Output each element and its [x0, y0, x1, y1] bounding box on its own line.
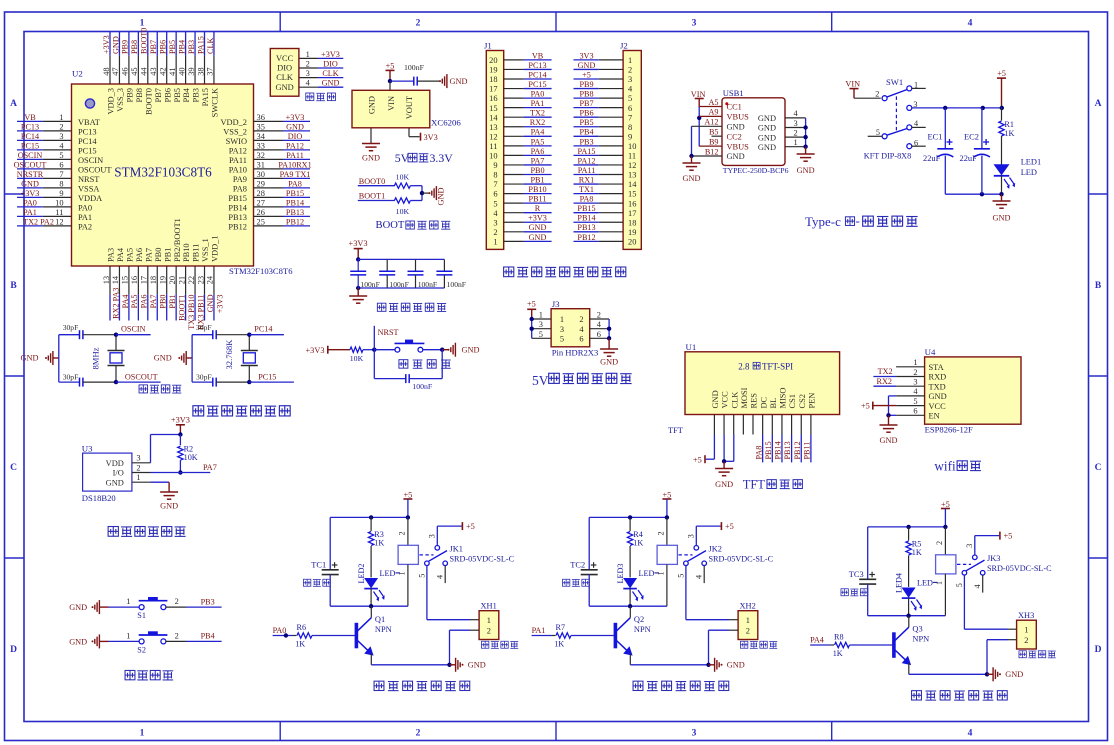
svg-text:PB4: PB4 [579, 128, 593, 137]
net label PA0 (relay input) [273, 626, 293, 635]
relay contact 5 (JK3) [955, 571, 967, 588]
U2 pin 25 (PB12) right, net PB12 [228, 217, 310, 231]
svg-text:GND: GND [322, 79, 340, 88]
resistor R6 1K (base) [293, 623, 355, 648]
svg-text:PB14: PB14 [774, 441, 783, 459]
svg-text:17: 17 [140, 276, 149, 284]
svg-text:PC15: PC15 [258, 373, 276, 382]
svg-text:1K: 1K [833, 649, 843, 658]
wire bottom rail [945, 193, 1001, 195]
svg-text:NRST: NRST [78, 175, 99, 184]
svg-text:2: 2 [397, 531, 406, 535]
svg-text:100nF: 100nF [447, 280, 466, 289]
svg-text:9: 9 [628, 132, 632, 141]
svg-text:LED1: LED1 [1021, 158, 1041, 167]
svg-text:VDD_1: VDD_1 [211, 235, 220, 262]
svg-text:PB4: PB4 [201, 632, 215, 641]
svg-text:+3V3: +3V3 [215, 295, 224, 314]
svg-text:CLK: CLK [206, 38, 215, 54]
svg-text:1: 1 [126, 597, 130, 606]
display U1 TFT body [685, 352, 840, 415]
relay contact 3 (JK3) with +5 [965, 532, 1012, 560]
ground port GND (crystal Y1) [21, 351, 59, 365]
svg-text:PB13: PB13 [577, 223, 595, 232]
svg-text:3V3: 3V3 [424, 133, 438, 142]
wire A12-B12 gnd vertical [691, 126, 693, 156]
svg-text:GND: GND [683, 174, 701, 183]
svg-text:39: 39 [187, 67, 196, 75]
U2 pin 42 (PB6) top, net PB6 [159, 32, 173, 103]
U2 pin 13 (PA3) bottom, net RX2 PA3 [102, 248, 121, 321]
download port pin 4 GND net GND [276, 79, 344, 92]
svg-text:STM32F103C8T6: STM32F103C8T6 [229, 266, 293, 276]
switch SW1 contact 3 [907, 100, 918, 110]
net label PB11 (U1 PEN) [803, 435, 812, 463]
svg-text:EN: EN [929, 412, 940, 421]
power port +5 (J3) [527, 300, 536, 339]
net label PB12 (U1 CS2) [793, 435, 802, 463]
svg-text:KFT DIP-8X8: KFT DIP-8X8 [864, 152, 911, 161]
svg-text:PA1: PA1 [531, 99, 545, 108]
wire SW1 pin3 to rail [912, 107, 1002, 109]
svg-text:100nF: 100nF [418, 280, 437, 289]
svg-text:20: 20 [628, 237, 636, 246]
wire BOOT joining vertical [421, 186, 423, 201]
svg-text:C: C [10, 463, 17, 473]
power port VIN (SW1) [845, 80, 860, 99]
svg-text:+5: +5 [861, 402, 870, 411]
junction bottom (JK2) [628, 604, 632, 608]
svg-text:PB7: PB7 [579, 99, 593, 108]
J2 pin 3 net +5 [574, 70, 633, 84]
U2 pin 44 (BOOT0) top, net BOOT0 [140, 28, 154, 115]
svg-text:BOOT0: BOOT0 [140, 28, 149, 54]
U1 pin CS1 [788, 394, 797, 434]
svg-text:PB8: PB8 [130, 40, 139, 54]
svg-text:PB15: PB15 [286, 189, 304, 198]
U2 pin 40 (PB4) top, net PB4 [177, 32, 191, 103]
svg-text:PA9 TX1: PA9 TX1 [280, 170, 311, 179]
USB1 pin 2 GND right [758, 128, 806, 142]
svg-text:+5: +5 [1004, 532, 1013, 541]
power port +3V3 (filter caps) [349, 239, 368, 259]
svg-text:LED: LED [639, 569, 655, 578]
svg-text:6: 6 [628, 104, 632, 113]
svg-text:PC14: PC14 [21, 132, 39, 141]
J1 pin 8 net PB0 [493, 166, 551, 180]
svg-text:BOOT: BOOT [376, 220, 405, 231]
svg-text:SRD-05VDC-SL-C: SRD-05VDC-SL-C [450, 554, 515, 563]
socket XH3 body [1017, 620, 1037, 649]
svg-text:GND: GND [929, 392, 947, 401]
svg-text:R7: R7 [556, 623, 566, 632]
J2 pin 8 net PB5 [574, 118, 633, 132]
relay contact 4 (JK3) [973, 571, 985, 593]
svg-text:1K: 1K [912, 548, 922, 557]
svg-text:12: 12 [489, 132, 497, 141]
junction bottom (JK1) [369, 604, 373, 608]
svg-text:5: 5 [493, 199, 497, 208]
relay contact 4 (JK1) [436, 561, 448, 583]
svg-text:1: 1 [913, 358, 917, 367]
svg-text:1: 1 [126, 632, 130, 641]
svg-text:I/O: I/O [113, 469, 124, 478]
wire filter bottom rail [358, 287, 444, 289]
svg-text:PB2/BOOT1: PB2/BOOT1 [173, 218, 182, 262]
U2 pin 21 (PB10) bottom, net TX3 PB10 [177, 243, 196, 329]
svg-text:TX2: TX2 [530, 109, 545, 118]
U2 pin 19 (PB1) bottom, net PB1 [159, 248, 178, 321]
svg-text:PB5: PB5 [173, 88, 182, 102]
svg-text:B: B [10, 281, 17, 291]
U2 pin 26 (PB13) right, net PB13 [228, 208, 310, 222]
svg-text:2: 2 [493, 228, 497, 237]
U3 pin 2 I/O, net PA7 [132, 463, 217, 472]
wire cap to GND port [417, 80, 440, 82]
junction node VIN [388, 79, 392, 83]
svg-text:3: 3 [913, 378, 917, 387]
svg-text:42: 42 [159, 67, 168, 75]
caption white socket (XH3) [1019, 651, 1056, 658]
caption BOOT setup circuit [376, 220, 451, 231]
svg-text:+5: +5 [662, 491, 671, 500]
svg-text:A9: A9 [708, 108, 718, 117]
svg-text:26: 26 [257, 208, 265, 217]
ground port GND (relay JK1) [450, 658, 486, 672]
svg-text:PC14: PC14 [254, 325, 272, 334]
led LED2 [357, 563, 400, 606]
caption reset circuit [399, 360, 451, 369]
connector download port (SWD) body [270, 49, 299, 97]
svg-text:22: 22 [187, 276, 196, 284]
svg-text:100nF: 100nF [389, 280, 408, 289]
svg-text:PB11: PB11 [529, 195, 547, 204]
svg-text:PB14: PB14 [577, 214, 595, 223]
U2 pin 10 (PA0) left, net PA0 [17, 198, 92, 212]
svg-text:GND: GND [529, 223, 547, 232]
svg-text:10K: 10K [184, 453, 198, 462]
svg-text:LED: LED [917, 578, 933, 587]
svg-text:5: 5 [539, 330, 543, 339]
ground port GND (relay JK2) [709, 658, 745, 672]
U2 pin 41 (PB5) top, net PB5 [168, 32, 182, 103]
capacitor EC2 22uF electrolytic [960, 108, 990, 194]
svg-text:PA6: PA6 [531, 147, 545, 156]
svg-text:43: 43 [149, 67, 158, 75]
svg-text:CS2: CS2 [798, 394, 807, 408]
svg-text:5V: 5V [532, 373, 549, 388]
U4 pin 2 RXD [896, 368, 946, 382]
wire collector (Q3) [908, 616, 910, 628]
svg-text:PB3: PB3 [579, 137, 593, 146]
U4 pin 4 GND [896, 387, 947, 401]
caption 5V external backup power [532, 373, 632, 388]
transistor Q1 NPN [356, 618, 373, 656]
dashed actuator link (JK1) [420, 554, 434, 556]
wire U1 GND pin to +5 [706, 435, 715, 460]
svg-text:PB9: PB9 [121, 40, 130, 54]
power port VIN (usb) [691, 90, 706, 107]
svg-text:PA3: PA3 [107, 248, 116, 262]
svg-text:ESP8266-12F: ESP8266-12F [925, 425, 973, 435]
svg-text:3V3: 3V3 [579, 51, 593, 60]
svg-text:PA12: PA12 [286, 141, 304, 150]
capacitor 100nF (reset) with loop wires [374, 350, 442, 392]
svg-text:+3V3: +3V3 [349, 239, 368, 248]
svg-text:PB3: PB3 [201, 597, 215, 606]
svg-text:TC1: TC1 [311, 560, 326, 569]
J3 pin 2 [579, 311, 609, 325]
svg-text:GND: GND [468, 661, 486, 670]
J2 pin 15 net TX1 [574, 185, 637, 199]
svg-text:2: 2 [935, 541, 944, 545]
resistor R8 1K (base) [831, 633, 893, 658]
junction crystal top [114, 333, 118, 337]
svg-text:BOOT0: BOOT0 [359, 177, 385, 186]
svg-text:15: 15 [628, 190, 636, 199]
svg-text:PA12: PA12 [578, 156, 596, 165]
caption Type-c power circuit [805, 213, 918, 229]
ground port GND (S2) [69, 634, 108, 648]
svg-text:VDD_3: VDD_3 [107, 88, 116, 115]
svg-text:J2: J2 [620, 41, 628, 51]
svg-text:PC14: PC14 [528, 70, 546, 79]
svg-text:LED3: LED3 [616, 563, 625, 583]
wire emitter rail (Q2) [630, 664, 708, 666]
svg-text:2: 2 [175, 632, 179, 641]
svg-text:PB7: PB7 [149, 40, 158, 54]
wire VIN vertical to VBUS pins [698, 107, 700, 147]
U2 pin 22 (PB11) bottom, net RX3 PB11 [187, 244, 206, 330]
sensor U3 DS18B20 body [83, 453, 132, 491]
svg-text:2: 2 [416, 729, 421, 739]
svg-text:15: 15 [489, 104, 497, 113]
svg-text:PA8: PA8 [754, 446, 763, 460]
net label PA4 (relay input) [810, 636, 830, 645]
svg-text:NPN: NPN [634, 625, 651, 634]
J2 pin 7 net PB6 [574, 109, 633, 123]
svg-text:11: 11 [55, 208, 63, 217]
svg-text:S2: S2 [137, 645, 146, 654]
J1 pin 18 net PC14 [489, 70, 551, 84]
J1 pin 13 net RX2 [489, 118, 551, 132]
svg-text:PA6: PA6 [135, 248, 144, 262]
capacitor TC2 tantalum [570, 517, 597, 606]
wire S2 pin2 [166, 640, 186, 642]
U3 pin 3 VDD [132, 435, 181, 463]
J1 pin 1 net GND [493, 233, 551, 247]
U2 pin 33 (PA12) right, net PA12 [229, 141, 310, 155]
svg-text:+3V3: +3V3 [286, 113, 305, 122]
svg-text:6: 6 [597, 330, 601, 339]
svg-text:1: 1 [794, 138, 798, 147]
svg-text:GND: GND [362, 154, 380, 163]
svg-text:30: 30 [257, 170, 265, 179]
USB1 pin A12 (GND) [692, 118, 745, 132]
J1 pin 16 net PA0 [489, 90, 551, 104]
switch SW1 pole B (pins 5-4) [868, 119, 926, 139]
svg-text:PA11: PA11 [229, 156, 247, 165]
svg-text:XH2: XH2 [740, 602, 756, 611]
wire emitter (Q2) [629, 654, 631, 665]
capacitor 100nF filter #3 [408, 259, 438, 289]
capacitor 100nF (regulator input) [404, 63, 425, 86]
wire LED1 to bottom rail [1001, 176, 1003, 194]
U2 pin 35 (VSS_2) right, net GND [223, 122, 310, 136]
U2 pin 18 (PB0) bottom, net PB0 [149, 248, 168, 321]
junction R2 top [178, 432, 182, 436]
junction right gnd pins [803, 125, 807, 129]
svg-text:+3V3: +3V3 [102, 35, 111, 54]
svg-text:VBUS: VBUS [727, 142, 750, 151]
ground port GND (input cap) [439, 74, 467, 88]
svg-text:1: 1 [306, 50, 310, 59]
wire emitter (Q3) [908, 663, 910, 674]
svg-text:TYPEC-250D-BCP6: TYPEC-250D-BCP6 [723, 166, 789, 175]
svg-text:GND: GND [21, 179, 39, 188]
svg-text:11: 11 [489, 142, 497, 151]
svg-text:A12: A12 [704, 118, 718, 127]
wifi module U4 body [925, 357, 1021, 424]
wire U1 CLK down-left [724, 435, 734, 462]
svg-text:DIO: DIO [323, 59, 338, 68]
power port +3V3 (U3) [171, 415, 190, 434]
svg-text:1: 1 [59, 113, 63, 122]
svg-text:TFT: TFT [743, 478, 766, 492]
junction I/O node [178, 470, 182, 474]
download port pin 1 VCC net +3V3 [276, 50, 343, 63]
svg-text:OSCOUT: OSCOUT [14, 160, 47, 169]
svg-text:TXD: TXD [929, 382, 946, 391]
net label PA8 (U1 DC) [754, 435, 763, 463]
svg-text:VDDA: VDDA [78, 194, 102, 203]
svg-text:3: 3 [59, 132, 63, 141]
svg-text:STA: STA [929, 363, 944, 372]
svg-text:1: 1 [935, 581, 944, 585]
svg-text:30pF: 30pF [63, 372, 79, 381]
svg-text:GND: GND [69, 603, 87, 612]
U1 pin BL [769, 398, 778, 435]
svg-text:2: 2 [136, 463, 140, 472]
junction crystal top [247, 333, 251, 337]
junction bottom EC2 [980, 192, 984, 196]
svg-text:3: 3 [493, 218, 497, 227]
wire contact5 to XH1 pin1 [427, 566, 479, 620]
svg-text:USB1: USB1 [723, 88, 744, 98]
svg-text:8: 8 [59, 180, 63, 189]
U2 pin 27 (PB14) right, net PB14 [228, 198, 310, 212]
svg-text:GND: GND [797, 166, 815, 175]
svg-text:4: 4 [968, 19, 973, 29]
svg-text:30pF: 30pF [63, 323, 79, 332]
svg-text:PB7: PB7 [154, 88, 163, 102]
junction top R (JK1) [369, 515, 373, 519]
svg-text:LED2: LED2 [357, 563, 366, 583]
svg-text:+5: +5 [693, 455, 702, 464]
J1 pin 15 net PA1 [489, 99, 551, 113]
svg-text:10: 10 [489, 152, 497, 161]
svg-text:5: 5 [417, 574, 426, 578]
svg-text:VSS_3: VSS_3 [116, 88, 125, 112]
svg-text:PA0: PA0 [23, 198, 37, 207]
svg-text:CLK: CLK [730, 392, 739, 409]
wire filter top rail [358, 258, 444, 260]
resistor R3 1K [368, 517, 384, 577]
net label PB3 [186, 597, 222, 607]
svg-text:CC1: CC1 [727, 103, 742, 112]
J1 pin 4 net R [493, 204, 551, 218]
svg-text:BOOT0: BOOT0 [144, 88, 153, 115]
svg-text:VSS_2: VSS_2 [223, 127, 247, 136]
net label PB15 (U1 BL) [764, 435, 773, 463]
svg-text:3: 3 [560, 325, 564, 334]
svg-text:PA5: PA5 [126, 248, 135, 262]
caption independent keys [125, 670, 173, 679]
capacitor TC3 tantalum [849, 527, 876, 616]
svg-text:17: 17 [489, 85, 497, 94]
svg-text:2: 2 [416, 19, 421, 29]
U2 pin 37 (SWCLK) top, net CLK [206, 32, 220, 117]
relay armature (JK1) [429, 551, 447, 562]
svg-text:36: 36 [257, 113, 265, 122]
U1 pin PEN [808, 393, 817, 435]
svg-text:32.768K: 32.768K [224, 339, 234, 370]
svg-text:40: 40 [177, 67, 186, 75]
U2 pin 34 (SWIO) right, net DIO [226, 132, 310, 146]
svg-text:2: 2 [875, 90, 879, 99]
svg-text:PA4: PA4 [810, 636, 824, 645]
svg-text:+5: +5 [582, 70, 591, 79]
svg-text:RX2: RX2 [530, 118, 545, 127]
wire VIN to SW1 pin2 [854, 97, 881, 99]
U4 pin 6 EN [896, 407, 940, 421]
wire S1 pin2 [166, 606, 186, 608]
net label TX2 (U4 RXD) [873, 367, 896, 376]
J2 pin 6 net PB7 [574, 99, 633, 113]
junction rail-EC2 [981, 106, 985, 110]
svg-text:TC2: TC2 [570, 560, 585, 569]
svg-text:C: C [1095, 463, 1102, 473]
svg-text:PB13: PB13 [228, 213, 247, 222]
svg-text:6: 6 [493, 190, 497, 199]
junction reset-gnd [440, 348, 444, 352]
svg-text:+5: +5 [466, 522, 475, 531]
svg-text:PA15: PA15 [578, 147, 596, 156]
svg-text:13: 13 [628, 171, 636, 180]
wire XH3 pin2 to gnd [987, 640, 1017, 675]
caption relay control output (JK1) [374, 681, 470, 690]
led LED4 [894, 573, 937, 616]
svg-text:14: 14 [111, 275, 120, 284]
svg-text:NRST: NRST [378, 328, 399, 337]
led LED1 [994, 164, 1016, 189]
caption temperature module [108, 527, 185, 537]
U2 pin 43 (PB7) top, net PB7 [149, 32, 163, 103]
svg-text:27: 27 [257, 199, 265, 208]
svg-text:CS1: CS1 [788, 394, 797, 408]
svg-text:LED: LED [1021, 168, 1037, 177]
J1 pin 6 net PB10 [493, 185, 551, 199]
svg-text:1K: 1K [374, 539, 384, 548]
mcu U2 STM32F103C8T6 body [72, 84, 254, 266]
wire button to gnd [423, 349, 442, 351]
relay armature (JK3) [966, 560, 984, 571]
svg-text:8: 8 [628, 123, 632, 132]
switch SW1 contact 6 [907, 138, 926, 148]
svg-text:SRD-05VDC-SL-C: SRD-05VDC-SL-C [709, 554, 774, 563]
resistor R4 1K [627, 517, 643, 577]
svg-text:2: 2 [175, 597, 179, 606]
